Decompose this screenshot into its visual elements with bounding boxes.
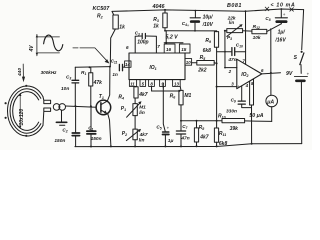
svg-text:4k7: 4k7 [138,92,148,98]
wire +9V top bus [112,9,304,11]
label 4046 [152,4,166,10]
pin 14 label [125,61,131,67]
pin 10 output wire [185,59,197,66]
resistor R6 M1 [170,90,192,120]
wire feedback riser to pin2 [224,31,237,74]
svg-text:2: 2 [228,69,232,74]
potentiometer P2 4k7 lin [122,116,148,147]
wire pin3 bias [217,86,237,88]
capacitor C2 150n [54,106,79,147]
svg-text:47n: 47n [180,135,189,141]
coil L1 loop antenna [5,85,44,137]
annotation arrow to input node [73,48,109,64]
svg-text:2k2: 2k2 [197,68,207,74]
node pin3 takeoff [216,86,218,88]
meter 50uA [249,95,277,121]
capacitor C7 47n [176,121,189,147]
node y-wire cross [216,120,218,122]
svg-text:+: + [307,71,310,76]
resistor R8 4k7 [194,120,208,147]
svg-text:M1: M1 [184,93,191,99]
node C3/C2 tap [74,105,76,107]
op-amp IO2 [231,58,264,88]
resistor R4 4k7 [118,87,147,101]
coupling winding [43,97,66,126]
svg-text:< 10 mA: < 10 mA [271,3,296,9]
svg-text:1k: 1k [119,25,125,31]
wire C10 row [217,51,232,53]
switch S [294,10,304,74]
svg-text:μA: μA [266,99,274,105]
node R6 bottom [180,120,182,122]
svg-text:/10V: /10V [202,22,214,28]
IC IO1 4046 [129,53,185,80]
svg-text:4k7: 4k7 [139,132,148,138]
svg-text:+: + [167,126,170,131]
wire output riser [270,29,272,96]
capacitor C3 10n [61,67,79,106]
svg-text:7: 7 [157,44,160,49]
svg-text:4k7: 4k7 [199,134,209,140]
ground under winding [56,110,66,125]
svg-text:300kHz: 300kHz [41,70,58,75]
resistor R10 39k [218,113,272,132]
svg-text:16: 16 [166,47,172,52]
capacitor C4 10u/10V [182,10,214,32]
label 300kHz [41,70,58,75]
wire divider vertical down [216,63,218,128]
IC bottom pin stubs [129,80,181,91]
svg-text:1n: 1n [112,72,118,77]
resistor R9 6k8 [203,31,219,63]
resistor R12 10k [252,24,267,41]
svg-text:39k: 39k [230,126,239,132]
node T1 base / C1 / R1 [90,105,92,107]
wire C8/R12 to output riser [267,24,282,32]
op-amp pins 4/8 ground stubs [250,79,254,144]
svg-text:330n: 330n [226,109,237,115]
svg-text:5,2 V: 5,2 V [166,34,179,40]
svg-text:9V: 9V [286,71,293,77]
svg-text:10μ/: 10μ/ [203,15,214,21]
annotation 4V sine waveform [29,34,63,56]
resistor R11 6k8 [214,128,227,147]
label B081 [227,3,242,9]
svg-text:6k8: 6k8 [203,48,212,54]
wire 5.2V rail [164,30,217,32]
svg-text:4: 4 [245,83,249,88]
svg-text:10: 10 [186,60,191,65]
svg-text:15: 15 [181,47,187,52]
svg-text:lin: lin [139,110,145,116]
wire P3 to R12 [243,30,252,32]
svg-text:4V: 4V [29,45,35,53]
measuring break mark x1 [265,7,269,11]
svg-text:10k: 10k [253,35,261,41]
resistor R3 1k [153,9,167,31]
annotation 440 arrow to coil [17,64,25,82]
svg-text:11: 11 [130,82,135,87]
svg-text:13: 13 [174,82,179,87]
capacitor C5 1u [156,83,173,146]
transistor T1 KC507 [96,67,111,147]
svg-text:10n: 10n [61,86,69,92]
svg-text:47n: 47n [227,57,236,63]
svg-text:150n: 150n [54,138,65,144]
capacitor C1 150n [87,106,102,146]
resistor R5 2k2 [197,55,217,73]
svg-text:+: + [237,84,240,89]
measuring break mark x2 [290,8,294,12]
potentiometer P3 22k lin [224,15,243,40]
svg-text:14: 14 [125,62,130,67]
svg-text:1μ/: 1μ/ [278,29,286,35]
svg-text:10x120: 10x120 [19,109,25,126]
wire input node line (C3 to C11) [75,66,110,69]
capacitor C9 330n [226,86,252,115]
svg-text:150n: 150n [91,136,102,142]
op-amp output wire [262,72,281,74]
svg-text:47k: 47k [93,80,103,86]
svg-text:B081: B081 [227,3,242,9]
svg-text:lin: lin [229,20,235,25]
battery 9V [286,71,310,143]
label <10 mA [271,3,296,9]
node A divider/R5 [216,62,218,64]
IC pins 16 15 to rail [164,31,190,53]
resistor R2 1k [97,11,125,66]
svg-text:/16V: /16V [274,37,286,43]
label 5,2 V [166,34,179,40]
svg-text:M1: M1 [139,104,146,110]
capacitor C11 1n [111,59,125,78]
svg-text:100p: 100p [137,39,148,45]
capacitor C10 47n [227,43,245,63]
svg-text:50 μA: 50 μA [249,113,263,119]
capacitor C8 1u/16V [265,8,287,43]
svg-text:lin: lin [139,138,145,144]
svg-text:+: + [283,12,286,17]
svg-text:1k: 1k [153,24,159,30]
svg-text:6: 6 [126,45,129,50]
label KC507 [93,6,111,12]
capacitor C3b 100p timing loop pins 6-7 [126,31,160,53]
ground rail bottom [75,143,302,148]
svg-text:1μ: 1μ [168,138,174,144]
wire meter row [181,120,222,122]
node junction collector/R2/C11 [109,66,111,68]
wire pin8 to R6 top [152,90,181,92]
svg-text:+: + [187,23,190,28]
coil dimension annotation 10x120 [19,93,25,129]
resistor R1 47k [81,66,102,106]
svg-text:KC507: KC507 [93,6,111,12]
svg-text:4046: 4046 [152,4,166,10]
svg-text:440: 440 [17,68,23,77]
wire winding to T1 base [66,106,97,107]
potentiometer P1 M1 lin [121,98,146,117]
wire pin7 riser to bus [245,10,247,64]
